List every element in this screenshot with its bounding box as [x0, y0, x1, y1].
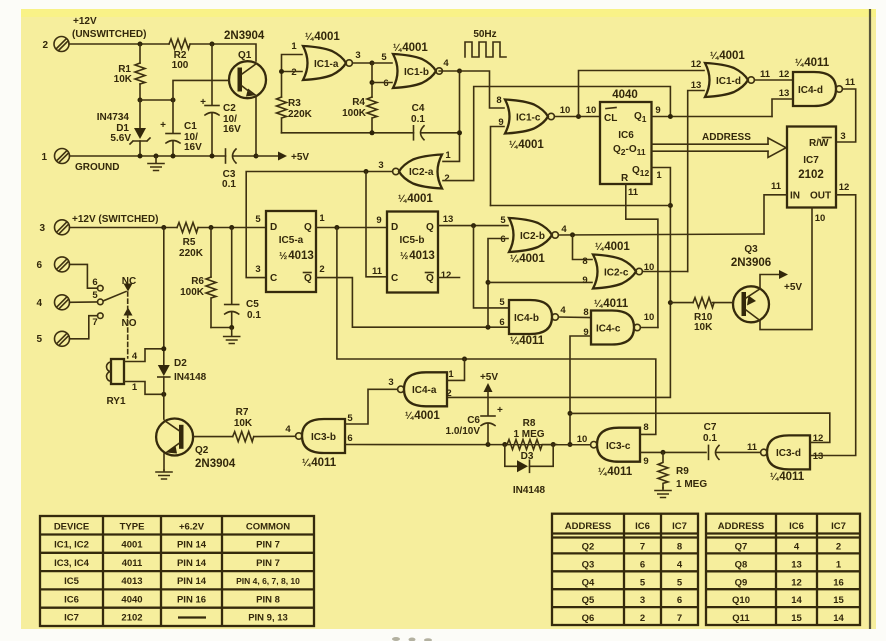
svg-text:4001: 4001: [121, 540, 143, 551]
svg-text:PIN 4, 6, 7, 8, 10: PIN 4, 6, 7, 8, 10: [236, 576, 300, 586]
wire IC4-d out to 2102 R/W: [836, 89, 856, 142]
svg-text:5: 5: [255, 214, 261, 225]
svg-text:6: 6: [500, 234, 505, 245]
wire Q2bar net up to IC2-b in6 / IC2-c in9: [488, 239, 508, 328]
NOR gate IC1-c (1/4 4001): [505, 100, 554, 134]
svg-text:3: 3: [255, 264, 260, 275]
svg-text:5: 5: [677, 577, 683, 588]
svg-text:IN4148: IN4148: [513, 485, 546, 496]
capacitor C7 0.1: [708, 445, 710, 459]
NOR gate IC1-a (1/4 4001): [303, 46, 352, 80]
NOR gate IC1-b (1/4 4001): [393, 54, 442, 88]
svg-text:ADDRESS: ADDRESS: [718, 521, 764, 532]
svg-text:IC1-a: IC1-a: [314, 59, 339, 70]
svg-text:D: D: [391, 222, 398, 233]
svg-text:2: 2: [42, 40, 48, 51]
terminal 1 GROUND: [41, 149, 69, 164]
node dot rail/R1: [138, 42, 143, 47]
svg-text:3: 3: [355, 50, 360, 61]
wire IC1-a input 2: [282, 71, 303, 73]
wire terminal 5 to contact 7: [70, 316, 98, 339]
svg-text:IC3, IC4: IC3, IC4: [54, 558, 90, 569]
wire IC4-c in9 from one-shot node: [570, 336, 590, 445]
svg-text:1: 1: [836, 559, 842, 570]
svg-text:+12V: +12V: [73, 16, 97, 27]
svg-text:8: 8: [583, 307, 588, 318]
terminal 6: [36, 257, 69, 272]
svg-text:RY1: RY1: [106, 396, 126, 407]
wire IC2-b out to 2102 IN: [558, 234, 764, 235]
svg-text:PIN 7: PIN 7: [256, 558, 280, 569]
svg-text:1: 1: [656, 170, 662, 181]
svg-text:IC1-b: IC1-b: [404, 67, 429, 78]
table: address map right: [706, 514, 860, 625]
svg-text:R9: R9: [676, 466, 689, 477]
svg-text:2102: 2102: [798, 169, 824, 181]
resistor R6 100K: [210, 228, 212, 278]
svg-text:8: 8: [677, 542, 682, 553]
wire IC2-b out down to IC2-c in8: [573, 235, 593, 260]
terminal 4: [36, 295, 69, 310]
svg-text:6: 6: [383, 78, 388, 89]
svg-text:0.1: 0.1: [703, 433, 717, 444]
svg-text:¼ 4001: ¼ 4001: [405, 410, 440, 422]
svg-text:12: 12: [441, 270, 452, 281]
wire relay pin 1: [124, 382, 164, 395]
svg-text:3: 3: [388, 377, 393, 388]
svg-text:9: 9: [582, 275, 587, 286]
svg-text:5.6V: 5.6V: [110, 133, 131, 144]
switch contact 6: [98, 285, 104, 291]
NAND gate IC3-d (1/4 4011, mirrored): [761, 435, 810, 469]
svg-text:1: 1: [448, 369, 454, 380]
svg-text:¼ 4001: ¼ 4001: [509, 139, 544, 151]
switch arm: [104, 292, 127, 301]
wire IC2-a in2 from 4040 Q1 feedback: [443, 87, 670, 181]
svg-text:IC4-b: IC4-b: [514, 313, 539, 324]
wire switched rail down to relay/Q2: [163, 228, 165, 366]
svg-text:100: 100: [172, 60, 189, 71]
svg-text:PIN 7: PIN 7: [256, 540, 280, 551]
svg-text:ADDRESS: ADDRESS: [565, 521, 611, 532]
svg-text:IC1, IC2: IC1, IC2: [54, 540, 89, 551]
svg-text:2N3904: 2N3904: [224, 30, 265, 42]
svg-text:PIN 16: PIN 16: [177, 594, 206, 605]
zener D1 IN4734: [139, 100, 141, 128]
svg-text:10K: 10K: [114, 74, 133, 85]
svg-text:Q9: Q9: [735, 577, 748, 588]
svg-text:11: 11: [845, 77, 856, 88]
NOR gate IC2-a (1/4 4001, mirrored): [393, 155, 442, 189]
svg-text:C6: C6: [467, 415, 480, 426]
capacitor C3 (series on +5V line): [225, 149, 227, 163]
svg-text:0.1: 0.1: [247, 310, 261, 321]
svg-text:2N3904: 2N3904: [195, 458, 236, 470]
svg-text:7: 7: [640, 542, 645, 553]
svg-text:Q: Q: [304, 273, 312, 284]
wire IC1-c output to 4040 CL: [555, 116, 601, 118]
wire Q3 emitter to +5V: [760, 275, 780, 289]
svg-text:+5V: +5V: [480, 372, 498, 383]
svg-text:12: 12: [779, 69, 790, 80]
svg-text:3: 3: [840, 131, 845, 142]
svg-text:12: 12: [691, 59, 702, 70]
svg-text:2: 2: [291, 67, 296, 78]
NOR gate IC1-d (1/4 4001): [705, 63, 754, 97]
wire IC3-d in12 from one-shot node: [570, 413, 830, 442]
svg-text:Q6: Q6: [582, 613, 595, 624]
wire terminal 4 to contact 5: [70, 301, 98, 303]
wire 2102 OUT(12) to IC3-d in13: [811, 195, 856, 456]
svg-text:3: 3: [378, 160, 383, 171]
svg-text:IC6: IC6: [618, 130, 634, 141]
svg-text:13: 13: [443, 214, 454, 225]
svg-text:R/W: R/W: [809, 138, 829, 149]
svg-text:10K: 10K: [234, 418, 253, 429]
svg-text:IC5-b: IC5-b: [400, 235, 425, 246]
wire IC2-c out to IC1-d in13 trunk: [642, 271, 687, 273]
terminal 2 (+12V unswitched): [42, 37, 69, 52]
svg-text:Q: Q: [304, 222, 312, 233]
svg-text:¼ 4011: ¼ 4011: [594, 298, 629, 310]
IC6 4040 counter: [600, 102, 652, 184]
svg-text:IC3-c: IC3-c: [606, 441, 631, 452]
svg-text:TYPE: TYPE: [120, 522, 145, 533]
svg-text:5: 5: [381, 52, 387, 63]
svg-text:10K: 10K: [694, 322, 713, 333]
NAND gate IC3-b (1/4 4011, mirrored): [296, 419, 345, 453]
relay RY1 coil: [111, 359, 124, 384]
svg-text:16: 16: [833, 577, 844, 588]
svg-text:GROUND: GROUND: [75, 162, 119, 173]
svg-text:CL: CL: [604, 113, 617, 124]
NOR gate IC2-c (1/4 4001): [593, 255, 642, 289]
svg-text:4040: 4040: [612, 89, 638, 101]
wire relay pin 4: [124, 349, 164, 362]
svg-text:1: 1: [445, 150, 451, 161]
svg-text:14: 14: [833, 613, 844, 624]
wire IC1-b output node 4: [439, 70, 459, 72]
svg-text:6: 6: [677, 595, 682, 606]
svg-text:8: 8: [643, 422, 648, 433]
svg-text:R: R: [621, 173, 629, 184]
svg-text:4: 4: [36, 298, 42, 309]
svg-text:IC1-d: IC1-d: [716, 76, 741, 87]
svg-text:PIN 9, 13: PIN 9, 13: [248, 613, 288, 624]
wire node3 to IC1-b in5: [372, 62, 392, 64]
svg-text:Q8: Q8: [735, 559, 748, 570]
svg-text:IC7: IC7: [831, 521, 846, 532]
wire 2102 pin10 to Q3 collector: [760, 208, 812, 330]
svg-text:Q3: Q3: [744, 244, 758, 255]
table: address map left: [552, 514, 698, 625]
svg-text:PIN 8: PIN 8: [256, 594, 280, 605]
svg-text:11: 11: [628, 187, 639, 198]
svg-text:13: 13: [813, 451, 824, 462]
svg-text:14: 14: [791, 595, 802, 606]
wire node4 right to IC1-c in8: [460, 71, 505, 108]
svg-text:10: 10: [815, 213, 826, 224]
svg-text:2N3906: 2N3906: [731, 257, 771, 269]
svg-text:2: 2: [446, 388, 451, 399]
svg-text:½ 4013: ½ 4013: [279, 250, 314, 262]
wire node to C1/base branch: [140, 99, 173, 101]
svg-text:IN4148: IN4148: [174, 372, 207, 383]
capacitor C2: [211, 44, 213, 105]
svg-text:C1: C1: [184, 121, 197, 132]
svg-text:IN: IN: [790, 191, 800, 202]
svg-text:PIN 14: PIN 14: [177, 540, 207, 551]
svg-text:4013: 4013: [121, 576, 142, 587]
wire node4 down to C4 node and IC2-a in1: [443, 71, 460, 161]
svg-text:¼ 4001: ¼ 4001: [305, 31, 340, 43]
NAND gate IC4-c (1/4 4011): [591, 311, 640, 345]
ground symbol (R9): [655, 488, 671, 498]
wire Q1a node down to gate row: [337, 228, 656, 435]
resistor R1: [139, 44, 141, 63]
wire IC1-d out to IC4-d in12: [754, 79, 792, 81]
svg-text:6: 6: [640, 559, 645, 570]
svg-text:IC7: IC7: [64, 613, 79, 624]
capacitor C1: [172, 100, 174, 133]
svg-text:11: 11: [747, 442, 758, 453]
wire IC5-b Q13 output to IC2-b in5 / IC4-b in5: [438, 225, 508, 227]
svg-text:R8: R8: [523, 418, 536, 429]
svg-text:PIN 14: PIN 14: [177, 576, 207, 587]
resistor R2: [169, 39, 190, 49]
svg-text:Q5: Q5: [582, 595, 595, 606]
svg-text:2102: 2102: [121, 613, 142, 624]
capacitor C5 0.1: [231, 228, 233, 305]
svg-text:1 MEG: 1 MEG: [676, 479, 707, 490]
svg-text:+: +: [497, 405, 503, 416]
wire IC4-a in1 up to Q1a node wire: [448, 359, 465, 380]
NAND gate IC4-d (1/4 4011): [793, 72, 842, 106]
wire 2102 IN(11) from IC2-b out: [764, 195, 787, 234]
svg-text:10: 10: [586, 105, 597, 116]
resistor R9 1 MEG: [658, 452, 668, 488]
svg-text:Q4: Q4: [582, 577, 595, 588]
svg-text:12: 12: [839, 182, 850, 193]
svg-text:8: 8: [582, 256, 587, 267]
svg-text:100K: 100K: [180, 287, 205, 298]
svg-text:¼ 4011: ¼ 4011: [302, 457, 337, 469]
svg-text:3: 3: [39, 223, 45, 234]
svg-text:15: 15: [833, 595, 844, 606]
svg-text:C: C: [391, 273, 398, 284]
wire Q1 base: [173, 80, 229, 100]
svg-text:C5: C5: [246, 299, 259, 310]
svg-text:R3: R3: [288, 98, 301, 109]
svg-text:IC4-a: IC4-a: [412, 385, 437, 396]
wire IC5-a Q2bar output: [316, 278, 508, 328]
svg-text:10: 10: [577, 434, 588, 445]
+5V arrow (supply output): [256, 155, 279, 157]
svg-text:¼ 4011: ¼ 4011: [598, 466, 633, 478]
svg-text:5: 5: [36, 334, 42, 345]
svg-text:¼ 4011: ¼ 4011: [510, 335, 545, 347]
svg-text:4: 4: [677, 559, 683, 570]
svg-text:+: +: [200, 97, 206, 108]
svg-text:4: 4: [443, 58, 449, 69]
svg-text:R7: R7: [236, 407, 249, 418]
svg-text:IN4734: IN4734: [97, 112, 130, 123]
wire IC4-d in13 from 4040 Q1: [772, 99, 792, 117]
svg-text:Q3: Q3: [582, 559, 595, 570]
svg-text:220K: 220K: [179, 248, 204, 259]
svg-text:6: 6: [36, 260, 42, 271]
wire 4040 Q12 output (pin1) down the right trunk: [448, 168, 670, 398]
wire IC1-a input 1: [282, 55, 303, 98]
svg-text:2: 2: [836, 542, 841, 553]
ADDRESS bus to 2102: [652, 143, 769, 145]
svg-text:4: 4: [794, 542, 800, 553]
resistor R8 1 MEG: [507, 440, 557, 450]
table: device power pins: [40, 516, 314, 626]
svg-text:4011: 4011: [122, 558, 143, 569]
svg-text:100K: 100K: [342, 108, 367, 119]
wire Q12 net to IC1-c in9: [491, 205, 671, 207]
switch contact 7: [98, 313, 104, 319]
svg-text:+5V: +5V: [291, 152, 309, 163]
wire IC4-c out up to 4040 R: [640, 327, 658, 329]
svg-text:2: 2: [444, 173, 449, 184]
wire IC1-d in13 from IC2-c out: [688, 91, 704, 272]
svg-text:NC: NC: [122, 276, 136, 287]
wire IC3-b in5 from IC4-a out: [346, 389, 398, 424]
NAND gate IC4-a (labelled 1/4 4001, mirrored): [398, 372, 447, 406]
svg-text:IC4-c: IC4-c: [596, 324, 621, 335]
svg-text:1 MEG: 1 MEG: [513, 429, 544, 440]
node R1/D1: [138, 98, 143, 103]
svg-text:PIN 14: PIN 14: [177, 558, 207, 569]
svg-text:C7: C7: [704, 422, 717, 433]
NOR gate IC2-b (1/4 4001): [509, 218, 558, 252]
svg-text:Q11: Q11: [732, 613, 750, 624]
wire IC5-b Q12bar stub: [438, 277, 460, 279]
svg-text:4: 4: [560, 305, 566, 316]
wire IC1-a output node 3: [352, 62, 372, 64]
resistor R5 220K: [177, 223, 198, 233]
wire IC2-a out to IC5-b C11: [366, 172, 387, 277]
terminal 5: [36, 331, 69, 346]
svg-text:IC2-c: IC2-c: [604, 268, 629, 279]
resistor R10 10K (Q12 net to Q3 base): [670, 302, 693, 304]
oscillator bottom wire: [282, 132, 414, 134]
switch contact 5: [98, 299, 104, 305]
IC5-a 1/2 4013 flip-flop: [266, 211, 316, 292]
svg-text:16V: 16V: [184, 142, 202, 153]
wire node3 down to in6 and R4: [371, 63, 373, 97]
svg-text:IC5-a: IC5-a: [279, 235, 304, 246]
svg-text:5: 5: [499, 297, 505, 308]
svg-text:D2: D2: [174, 358, 187, 369]
svg-text:IC2-b: IC2-b: [520, 231, 545, 242]
wire IC5-a Q1 output node: [316, 227, 387, 229]
wire IC3-c in9 to C7 node: [641, 451, 706, 453]
svg-text:COMMON: COMMON: [246, 522, 290, 533]
svg-text:(UNSWITCHED): (UNSWITCHED): [72, 29, 146, 40]
svg-text:IC7: IC7: [803, 155, 819, 166]
svg-text:11: 11: [760, 69, 771, 80]
svg-text:1: 1: [319, 213, 325, 224]
svg-text:9: 9: [655, 105, 660, 116]
NAND gate IC3-c (1/4 4011, mirrored): [591, 428, 640, 462]
mechanical link (dashed) to RY1: [127, 292, 129, 358]
diode D2 IN4148 (across coil): [158, 365, 170, 376]
svg-text:9: 9: [643, 456, 648, 467]
svg-text:10: 10: [560, 105, 571, 116]
svg-text:13: 13: [791, 559, 802, 570]
NAND gate IC4-b (1/4 4011): [509, 300, 558, 334]
svg-text:220K: 220K: [288, 109, 313, 120]
IC7 2102 memory: [787, 127, 836, 208]
svg-text:D: D: [270, 222, 277, 233]
svg-text:R4: R4: [352, 97, 365, 108]
svg-text:¼ 4011: ¼ 4011: [795, 57, 830, 69]
svg-text:6: 6: [499, 317, 504, 328]
svg-text:Q2: Q2: [582, 542, 595, 553]
ground symbol (supply): [148, 156, 164, 171]
svg-text:+5V: +5V: [784, 282, 802, 293]
svg-text:11: 11: [372, 266, 383, 277]
svg-text:R6: R6: [191, 276, 204, 287]
wire IC2-a output (clock to both 4013): [246, 172, 392, 278]
svg-text:6: 6: [347, 433, 352, 444]
svg-text:4: 4: [132, 351, 138, 362]
svg-text:D3: D3: [521, 451, 534, 462]
svg-text:Q: Q: [426, 222, 434, 233]
svg-text:+6.2V: +6.2V: [179, 522, 205, 533]
resistor R3 220K: [277, 97, 287, 133]
svg-text:NO: NO: [122, 318, 137, 329]
ground wire y156: [70, 155, 226, 157]
svg-text:1: 1: [132, 382, 138, 393]
faint page mark bottom centre: [392, 637, 432, 641]
svg-text:C2: C2: [223, 103, 236, 114]
resistor R7 10K (Q2 base): [193, 436, 232, 438]
svg-text:IC7: IC7: [672, 521, 687, 532]
right page-fold dark line: [869, 9, 871, 629]
wire IC4-b out to IC4-c in8: [558, 316, 590, 319]
capacitor C4 0.1: [413, 126, 415, 140]
svg-text:1.0/10V: 1.0/10V: [446, 426, 481, 437]
svg-text:7: 7: [677, 613, 682, 624]
svg-text:2: 2: [640, 613, 645, 624]
svg-text:IC6: IC6: [64, 594, 79, 605]
svg-text:9: 9: [376, 215, 381, 226]
svg-text:¼ 4001: ¼ 4001: [710, 50, 745, 62]
svg-text:IC4-d: IC4-d: [798, 85, 823, 96]
svg-text:+: +: [160, 120, 166, 131]
wire +12V switched rail: [70, 227, 178, 229]
svg-text:8: 8: [496, 95, 501, 106]
svg-text:Q10: Q10: [732, 595, 750, 606]
svg-text:IC1-c: IC1-c: [516, 113, 541, 124]
ground symbol (R6/C5): [224, 328, 240, 344]
wire terminal 6 to contact 6: [70, 264, 98, 288]
svg-text:Q2: Q2: [195, 445, 209, 456]
wire IC1-c out node up to IC1-d in12: [579, 71, 705, 117]
wire IC1-c in9 from Q12 net: [491, 127, 505, 206]
node dot rail/C2: [210, 42, 215, 47]
svg-text:¼ 4001: ¼ 4001: [398, 193, 433, 205]
transistor Q2 2N3904: [156, 419, 193, 456]
svg-text:OUT: OUT: [810, 191, 831, 202]
resistor R4 100K: [367, 97, 377, 133]
wire 4040 R(11) from IC4-c out: [626, 184, 658, 328]
svg-text:50Hz: 50Hz: [473, 29, 496, 40]
